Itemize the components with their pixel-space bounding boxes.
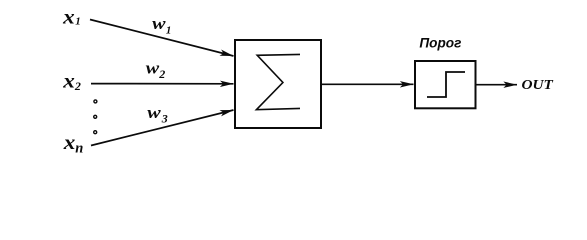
svg-text:w: w	[147, 103, 161, 122]
svg-text:x: x	[62, 70, 75, 92]
threshold block	[415, 61, 476, 108]
output wire with arrow	[477, 84, 518, 86]
svg-text:w: w	[152, 14, 166, 33]
svg-text:n: n	[75, 141, 83, 157]
sigma symbol inside summation block	[256, 54, 300, 109]
svg-text:2: 2	[158, 67, 165, 81]
vertical ellipsis dots between x2 and xn	[94, 100, 97, 103]
summation block U1	[235, 40, 321, 128]
svg-text:Порог: Порог	[419, 34, 462, 50]
svg-text:x: x	[63, 132, 76, 154]
wire input 1 with arrow	[90, 20, 234, 57]
step function symbol inside threshold block	[427, 72, 465, 97]
wire summation to threshold with arrow	[321, 83, 414, 85]
svg-text:3: 3	[161, 111, 168, 125]
svg-text:1: 1	[75, 16, 81, 28]
wire input 3 with arrow	[91, 110, 234, 146]
wire input 2 with arrow	[91, 83, 234, 85]
svg-text:1: 1	[166, 25, 172, 37]
svg-text:OUT: OUT	[522, 77, 554, 92]
svg-text:x: x	[62, 6, 75, 28]
svg-text:w: w	[146, 59, 160, 78]
svg-text:2: 2	[74, 79, 81, 93]
